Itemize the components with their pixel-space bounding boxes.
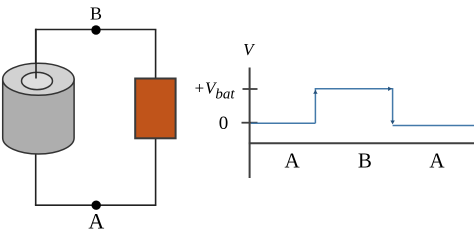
battery top terminal ring <box>22 72 53 89</box>
right arrowhead at end of top segment <box>388 87 392 91</box>
tick +Vbat <box>243 88 258 90</box>
resistor R <box>135 79 175 139</box>
signal pulse polyline (rise, top, fall) <box>315 89 392 123</box>
wire left vertical (battery loop) <box>35 30 37 206</box>
svg-text:+Vbat: +Vbat <box>194 79 236 103</box>
tick 0 <box>242 122 258 124</box>
graph V axis (vertical) <box>249 68 251 179</box>
battery cell body (cylinder) <box>3 79 74 154</box>
svg-text:A: A <box>285 148 301 172</box>
svg-text:V: V <box>243 40 256 59</box>
battery cell top face <box>3 63 74 95</box>
wire right vertical <box>155 30 157 206</box>
wire bottom horizontal <box>35 204 156 206</box>
svg-text:A: A <box>429 148 445 172</box>
svg-text:B: B <box>358 148 372 172</box>
up arrowhead on rising edge <box>313 90 317 94</box>
node A junction dot <box>92 201 101 210</box>
graph t axis (horizontal) <box>249 142 474 144</box>
wire top horizontal <box>35 29 156 31</box>
signal segment 0-level region A <box>251 122 315 124</box>
wire into battery top terminal <box>35 29 37 79</box>
svg-text:A: A <box>88 209 104 234</box>
node B junction dot <box>91 25 100 34</box>
signal segment 0-level region A (right) <box>393 125 474 127</box>
svg-text:B: B <box>90 4 102 24</box>
down arrowhead on falling edge <box>390 121 394 125</box>
svg-text:0: 0 <box>219 113 229 134</box>
